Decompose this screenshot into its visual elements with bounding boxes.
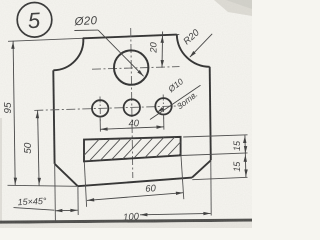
100 dim bbox=[123, 161, 211, 223]
hatch lines bbox=[76, 134, 199, 164]
main vertical centerline bbox=[131, 28, 133, 178]
bottom edge bbox=[78, 178, 192, 187]
95 dim bbox=[3, 41, 17, 186]
left chamfer 15x45 bbox=[55, 164, 78, 186]
hole1 vertical centerline bbox=[99, 97, 101, 121]
big circle D20 bbox=[114, 50, 148, 84]
right chamfer bbox=[192, 160, 211, 177]
top-left scoop arc R20 bbox=[53, 38, 83, 70]
paper background bbox=[0, 0, 252, 228]
top-right scan smudge bbox=[214, 0, 252, 16]
top edge extension line (95 dim) bbox=[8, 34, 179, 41]
R20 label bbox=[181, 27, 212, 59]
holes centerline bbox=[34, 106, 180, 111]
D20 label bbox=[73, 15, 144, 77]
hole1 D10 bbox=[92, 100, 108, 116]
top-right scoop arc R20 bbox=[177, 35, 210, 67]
hole3 D10 bbox=[155, 98, 171, 114]
balloon item 5 bbox=[17, 3, 52, 38]
hole2 D10 bbox=[124, 99, 140, 115]
D10 3 holes label bbox=[150, 76, 201, 119]
right edge bbox=[210, 67, 211, 161]
bottom scan border bbox=[0, 219, 252, 224]
hatch slot rectangle bbox=[84, 137, 181, 162]
left edge scan shade bbox=[0, 118, 2, 228]
40 dim bbox=[100, 115, 164, 132]
60 dim bbox=[84, 156, 184, 207]
top edge (part) bbox=[83, 35, 177, 39]
hole3 vertical centerline bbox=[162, 95, 165, 119]
15x45 chamfer dim bbox=[14, 165, 79, 221]
50 dim bbox=[23, 110, 41, 185]
15/15 dims right side bbox=[181, 135, 248, 180]
bottom edge left extension bbox=[8, 185, 79, 186]
big circle horizontal centerline bbox=[92, 67, 180, 70]
left edge bbox=[53, 70, 54, 164]
20 dim bbox=[148, 32, 164, 68]
